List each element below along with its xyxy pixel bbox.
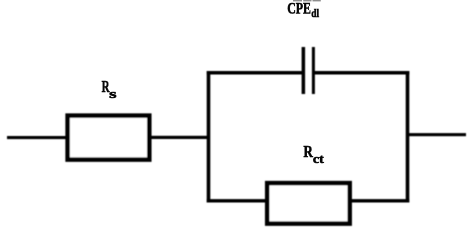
node A: left rail of parallel branch (207, 71, 211, 203)
capacitor CPEdl (constant phase element plates) (302, 47, 315, 94)
svg-text:s: s (109, 87, 117, 101)
wire: Rs to parallel node A (150, 136, 209, 139)
wire: top rail right segment (CPE right plate to node B) (313, 71, 409, 75)
resistor Rs (series resistance box) (68, 116, 150, 160)
wire: bottom rail left segment (node A to Rct) (207, 199, 269, 202)
wire: top rail left segment (node A to CPE left plate) (207, 71, 304, 75)
resistor Rct (charge-transfer resistance box) (267, 183, 350, 224)
label Rs: value label "R" with subscript "s" (102, 77, 117, 101)
label CPEdl: value label "CPE" with subscript "dl" (287, 1, 319, 21)
svg-text:dl: dl (311, 8, 319, 20)
wire: bottom rail right segment (Rct to node B) (349, 199, 409, 202)
svg-text:CPE: CPE (287, 1, 311, 18)
decorative scan artifact dashes at top edge (293, 0, 321, 1)
label Rct: value label "R" with subscript "ct" (303, 142, 324, 166)
wire: right output lead (406, 133, 466, 136)
node B: right rail of parallel branch (406, 71, 410, 203)
wire: left input lead (7, 136, 67, 139)
svg-text:ct: ct (313, 152, 325, 166)
